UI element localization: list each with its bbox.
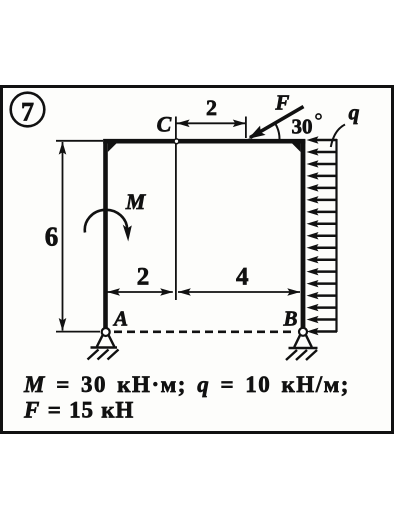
beam (top, C to right corner): [103, 139, 305, 144]
svg-text:30: 30: [292, 115, 313, 139]
svg-text:F = 15 кН: F = 15 кН: [23, 398, 134, 423]
svg-text:2: 2: [206, 95, 217, 120]
node C extension line (vertical thin through C): [175, 117, 177, 301]
svg-text:6: 6: [45, 222, 59, 252]
column B (right): [301, 139, 306, 332]
dimension 6 extension line bottom: [56, 331, 100, 333]
dashed line A to B: [114, 330, 296, 333]
dimension 6 extension line top: [56, 140, 103, 142]
svg-text:2: 2: [137, 264, 150, 291]
dimension 4 line: [178, 288, 300, 296]
problem number 7: [11, 93, 45, 127]
column AC (left): [103, 139, 108, 332]
dimension 6 line: [59, 142, 67, 331]
support A: [88, 328, 119, 360]
svg-text:7: 7: [21, 98, 34, 127]
support B: [286, 328, 318, 360]
dimension 2 top line: [177, 120, 246, 128]
force F arrow: [248, 107, 303, 139]
distributed load q: [307, 136, 338, 335]
corner fillet top-right: [292, 143, 301, 152]
extension tick at F application point: [245, 117, 247, 139]
q leader curve: [331, 125, 345, 148]
node C: [174, 139, 179, 144]
svg-text:F: F: [274, 91, 289, 115]
svg-text:M = 30 кН·м; q = 10 кН/м;: M = 30 кН·м; q = 10 кН/м;: [23, 372, 350, 397]
svg-text:C: C: [157, 112, 172, 137]
svg-text:B: B: [282, 307, 297, 331]
svg-text:q: q: [349, 100, 360, 125]
svg-text:4: 4: [236, 264, 249, 291]
dimension 2 bottom line: [107, 288, 173, 296]
corner fillet top-left: [108, 143, 117, 152]
label 30 degrees: [292, 114, 322, 139]
angle 30 arc: [276, 124, 280, 139]
svg-text:M: M: [125, 189, 147, 214]
svg-text:A: A: [112, 307, 128, 331]
moment M arc: [85, 210, 132, 242]
